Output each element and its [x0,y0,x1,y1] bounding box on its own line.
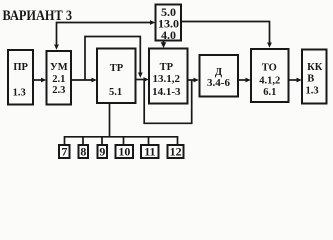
block ТО 4.1,2 6.1 [251,49,289,102]
svg-text:8: 8 [80,145,86,159]
svg-text:13.1,2: 13.1,2 [153,73,181,85]
wire УМ to ТР1 [71,78,97,83]
wire U0 to ТР2 top [161,42,167,49]
svg-text:4.1,2: 4.1,2 [259,75,280,86]
svg-text:7: 7 [61,145,67,159]
svg-text:КК: КК [307,62,323,73]
block Д 3.4-6 [200,55,239,97]
block 9 [98,145,108,159]
block 8 [79,145,89,159]
svg-text:УМ: УМ [50,62,68,73]
wire ТР2 to Д [188,78,199,83]
wire ТР1 to ТР2 [136,77,149,82]
block 7 [59,145,70,159]
wire bus over numbered blocks [65,137,178,145]
svg-text:14.1-3: 14.1-3 [152,86,181,98]
svg-text:3.4-6: 3.4-6 [207,77,230,89]
block ТР 13.1,2 14.1-3 [149,49,188,104]
svg-text:2.1: 2.1 [52,74,65,85]
block ТР 5.1 [97,49,136,104]
svg-text:5.1: 5.1 [109,87,122,98]
title ВАРИАНТ 3 [3,8,73,24]
svg-text:2.3: 2.3 [52,85,65,96]
block УМ 2.1 2.3 [47,51,72,105]
wire ТР1 bottom to bus [109,103,111,137]
wire ПР to УМ [34,78,46,83]
svg-text:4.0: 4.0 [161,28,176,42]
svg-text:9: 9 [99,145,105,159]
block КК В 1.3 [302,50,327,104]
svg-text:ВАРИАНТ 3: ВАРИАНТ 3 [3,8,73,24]
wire УМ and U0 double-arrow link [54,20,155,50]
svg-text:11: 11 [144,145,155,159]
svg-text:ТО: ТО [262,63,277,74]
wire Д to ТО [239,78,251,83]
block 10 [116,145,134,159]
svg-text:ТР: ТР [160,62,174,73]
svg-text:ПР: ПР [13,62,28,73]
wire feedback УМ-ТР1 node over to ТР1-ТР2 node [85,37,143,80]
svg-text:12: 12 [170,145,182,159]
svg-text:В: В [307,73,314,84]
wire U-link ТР1-ТР2 node down around to ТР2-Д node [144,80,192,124]
wire ТО to КК [289,78,302,83]
block 12 [168,145,184,159]
svg-text:ТР: ТР [110,63,124,74]
svg-text:10: 10 [118,145,130,159]
block ПР 1.3 [8,50,33,105]
svg-text:1.3: 1.3 [305,85,318,96]
svg-text:6.1: 6.1 [263,87,276,98]
block 11 [141,145,159,159]
block U0 values 5.0 13.0 4.0 [156,5,182,43]
svg-text:1.3: 1.3 [13,88,26,99]
wire U0 to ТО top [182,22,272,48]
